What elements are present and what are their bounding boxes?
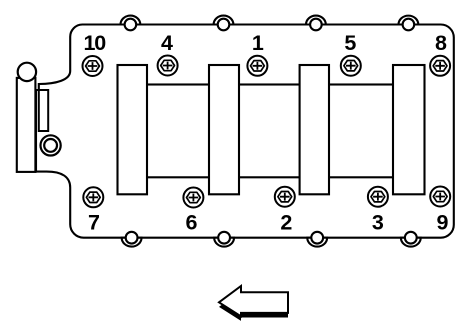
bottom bump 4 [401,232,421,247]
svg-text:9: 9 [437,211,449,235]
left bracket small rect [39,90,48,131]
svg-text:5: 5 [344,31,356,55]
svg-text:7: 7 [88,211,100,235]
arrow (front of engine) [219,286,288,316]
bolt 7 [83,187,103,207]
camshaft band [132,85,410,178]
arrow shadow [219,291,288,321]
bearing tower 3 [300,65,329,194]
top bump 3 [306,16,326,31]
top bump 4 [399,16,419,31]
svg-text:6: 6 [186,211,198,235]
bolt 4 [158,56,178,76]
bolt 8 [430,56,450,76]
bearing tower 4 [393,65,425,194]
svg-text:10: 10 [83,31,106,55]
bottom bump 1 [122,232,142,247]
bottom bump 3 [307,232,327,247]
svg-text:2: 2 [280,211,292,235]
svg-text:3: 3 [372,211,384,235]
left bracket tall rect [17,78,36,172]
plate outline [36,25,454,238]
bolt 1 [247,56,267,76]
svg-text:8: 8 [435,31,447,55]
bearing tower 2 [209,65,239,194]
bolt 5 [341,56,361,76]
left bracket top circle [18,63,36,81]
bolt 6 [183,188,203,208]
bolt 3 [368,187,388,207]
top bump 2 [214,16,234,31]
bolt 10 [83,56,103,76]
top bump 1 [121,16,141,31]
svg-text:4: 4 [161,31,173,55]
bearing tower 1 [118,65,148,194]
bottom bump 2 [214,232,234,247]
left bracket double ring hole [41,135,61,155]
bolt 9 [430,187,450,207]
bolt 2 [275,187,295,207]
svg-text:1: 1 [252,31,264,55]
